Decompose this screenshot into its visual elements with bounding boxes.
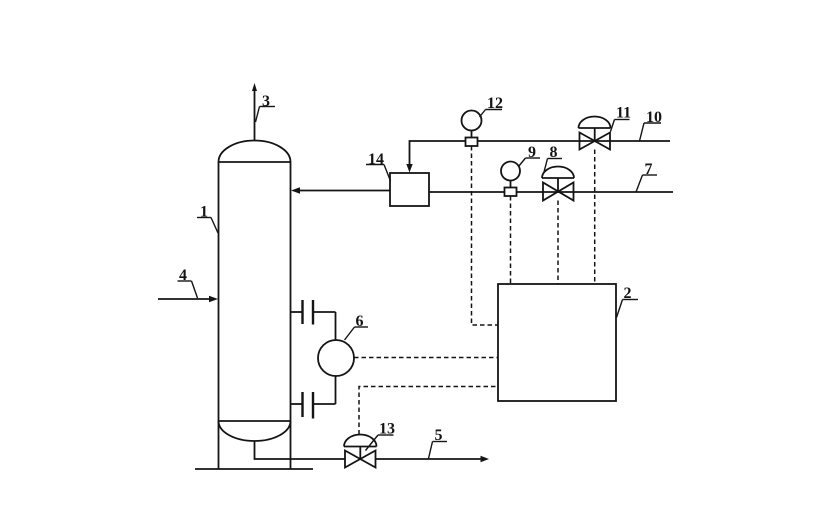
instrument 12 (sensor on line 10) bbox=[462, 111, 482, 147]
dashed signal wire from valve 11 to box 2 bbox=[594, 150, 596, 285]
label 3 bbox=[256, 93, 276, 122]
arrowhead into box 14 bbox=[406, 164, 412, 173]
label 12 bbox=[480, 95, 504, 117]
box 2 (control unit) bbox=[498, 284, 616, 401]
dashed signal wire from valve 8 to box 2 bbox=[557, 201, 559, 285]
svg-text:14: 14 bbox=[368, 151, 384, 168]
label 4 bbox=[178, 267, 198, 298]
box 14 (converter) bbox=[390, 173, 429, 206]
ground line bbox=[195, 468, 313, 470]
arrowhead vent up bbox=[252, 83, 257, 91]
svg-text:3: 3 bbox=[262, 93, 270, 110]
dashed signal wire from valve 13 to box 2 bbox=[359, 387, 498, 435]
label 11 bbox=[611, 105, 632, 132]
label 1 bbox=[197, 204, 218, 234]
control valve 8 bbox=[542, 167, 574, 201]
dashed signal wire from instrument 9 to box 2 bbox=[510, 196, 512, 284]
wire bottom outlet bbox=[255, 441, 346, 460]
vessel 1 (distillation column shell) bbox=[219, 141, 291, 470]
label 6 bbox=[345, 313, 369, 340]
instrument 9 (sensor on line 7) bbox=[501, 162, 520, 197]
label 9 bbox=[519, 144, 541, 167]
label 7 bbox=[636, 161, 657, 192]
control valve 13 bbox=[344, 434, 377, 467]
wire line 10 (top header) bbox=[410, 141, 671, 166]
dashed signal wire from instrument 6 to box 2 bbox=[354, 357, 498, 359]
dashed signal wire from instrument 12 to box 2 bbox=[472, 146, 499, 325]
label 8 bbox=[544, 144, 562, 172]
wire line 7 (second header) bbox=[429, 191, 673, 193]
label 2 bbox=[617, 285, 639, 318]
arrowhead into column left bbox=[209, 296, 218, 302]
level instrument 6 bbox=[291, 300, 355, 419]
label 13 bbox=[366, 421, 396, 451]
label 14 bbox=[366, 151, 391, 181]
wire vent line 3 bbox=[254, 87, 256, 141]
arrowhead into column right bbox=[291, 187, 300, 193]
control valve 11 bbox=[579, 117, 611, 150]
arrowhead line 5 bbox=[481, 456, 490, 462]
wire line 5 (bottoms outlet) bbox=[376, 458, 483, 460]
label 5 bbox=[429, 427, 448, 459]
label 10 bbox=[640, 109, 663, 141]
wire from box 14 to column bbox=[299, 190, 390, 192]
wire feed line 4 bbox=[158, 298, 210, 300]
